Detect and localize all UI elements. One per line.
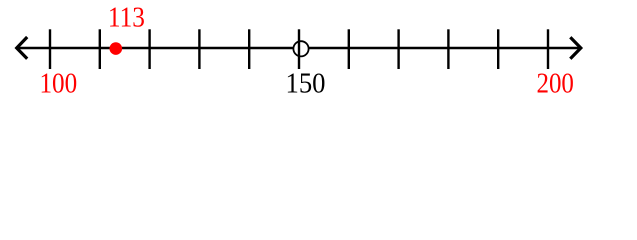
svg-text:150: 150 <box>286 68 326 100</box>
svg-text:113: 113 <box>108 2 145 34</box>
svg-text:100: 100 <box>39 68 77 100</box>
svg-text:200: 200 <box>537 68 574 100</box>
